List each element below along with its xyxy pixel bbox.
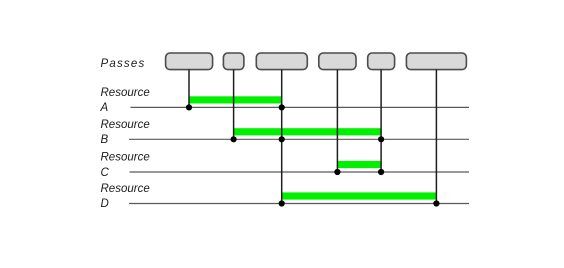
svg-text:B: B (101, 134, 109, 146)
lifetime bar C (337, 161, 381, 168)
node P1-A (186, 104, 192, 110)
label Resource B (101, 119, 150, 146)
svg-text:A: A (100, 102, 109, 114)
label Resource D (101, 183, 150, 210)
pass box P4 (319, 53, 356, 70)
lifetime bar A (189, 96, 282, 103)
timeline B (129, 138, 469, 140)
node P3-A (279, 104, 285, 110)
label Resource A (100, 87, 150, 114)
wire P2 to B (233, 70, 235, 140)
node P3-B (279, 136, 285, 142)
svg-text:D: D (101, 198, 109, 210)
pass box P3 (256, 53, 307, 70)
svg-text:Resource: Resource (101, 87, 150, 99)
timeline C (130, 171, 470, 173)
svg-text:C: C (101, 167, 110, 179)
wire P5 to C (380, 70, 382, 172)
timeline A (131, 106, 470, 108)
node P3-D (279, 200, 285, 206)
node P4-C (334, 169, 340, 175)
node P5-B (378, 136, 384, 142)
svg-text:Passes: Passes (101, 58, 146, 70)
wire P3 to D (281, 70, 283, 204)
wire P6 to D (435, 70, 437, 204)
svg-text:Resource: Resource (101, 183, 150, 195)
node P5-C (378, 169, 384, 175)
pass box P2 (223, 53, 244, 70)
wire P1 to A (188, 70, 190, 108)
node P6-D (433, 200, 439, 206)
svg-text:Resource: Resource (101, 151, 150, 163)
wire P4 to C (336, 70, 338, 172)
pass box P1 (166, 53, 213, 70)
node P2-B (231, 136, 237, 142)
lifetime bar B (234, 128, 382, 135)
pass box P6 (406, 53, 466, 70)
timeline D (129, 203, 469, 205)
pass box P5 (368, 53, 395, 70)
svg-text:Resource: Resource (101, 119, 150, 131)
lifetime bar D (282, 192, 437, 199)
label Resource C (101, 151, 150, 179)
